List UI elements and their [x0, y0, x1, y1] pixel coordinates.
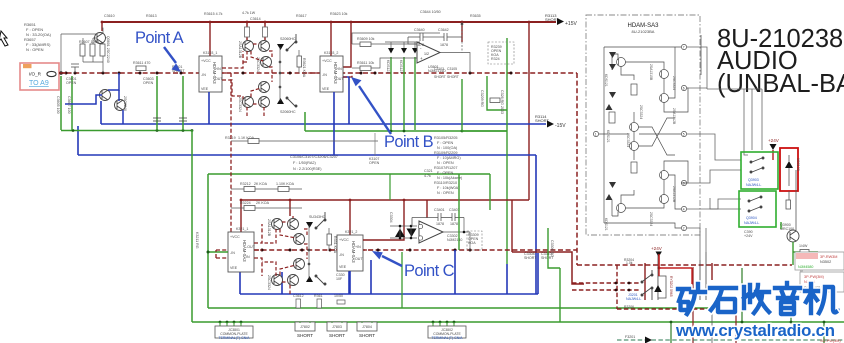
wire base network Q3601	[61, 28, 103, 73]
wire dashed signal bus vertical right	[576, 73, 578, 265]
wire green vertical x791	[790, 300, 792, 322]
jumper J7802	[295, 322, 315, 338]
svg-text:N : 2.2/100(R3E): N : 2.2/100(R3E)	[293, 167, 322, 171]
svg-text:K321_2: K321_2	[345, 230, 357, 234]
svg-text:2SC3324: 2SC3324	[672, 76, 676, 90]
svg-text:SHORT: SHORT	[359, 333, 375, 338]
wire blue verticals to y294	[240, 250, 538, 294]
wire dashed cluster interconnect	[243, 44, 272, 118]
annotation arrow A	[164, 47, 181, 72]
wire +VCC drop to Q3607	[264, 22, 266, 40]
svg-text:R3609 10k: R3609 10k	[357, 37, 375, 41]
connector 3P-RW3M 2	[800, 272, 844, 292]
svg-text:R3109/R2209: R3109/R2209	[434, 151, 457, 155]
wire green vertical x742	[741, 268, 743, 322]
svg-text:(UNBAL-BAL: (UNBAL-BAL	[717, 70, 844, 98]
svg-text:C321: C321	[424, 169, 433, 173]
svg-text:R3107/R1207: R3107/R1207	[434, 166, 457, 170]
svg-text:R3615 4.7k: R3615 4.7k	[204, 12, 223, 16]
svg-text:-IN: -IN	[322, 73, 327, 77]
wire diode tops	[385, 42, 420, 48]
resistor R3611 KOA	[136, 66, 146, 71]
transistor Q3613	[243, 97, 254, 108]
svg-text:-IN: -IN	[230, 251, 235, 255]
wire +VCC drop to U3602 right pin	[343, 22, 351, 67]
transistor Q3801	[272, 219, 283, 230]
svg-text:VEE: VEE	[339, 265, 347, 269]
svg-text:-IN: -IN	[201, 73, 206, 77]
svg-text:2SC3324: 2SC3324	[626, 133, 630, 147]
wire top rail	[604, 46, 681, 48]
svg-text:+24V: +24V	[768, 138, 780, 143]
wire green vertical x459	[458, 174, 460, 250]
svg-text:5: 5	[683, 132, 685, 136]
wire R3621	[298, 50, 300, 73]
wire green input U3801	[208, 251, 228, 253]
svg-text:C3614: C3614	[250, 17, 261, 21]
diode DC pair	[606, 182, 617, 200]
svg-text:+: +	[420, 56, 423, 61]
svg-text:SHORT: SHORT	[447, 75, 459, 79]
small parts above blue bus	[296, 299, 345, 308]
svg-text:+VCC: +VCC	[322, 59, 332, 63]
wire dashed cluster2 interconnect	[262, 216, 307, 294]
svg-text:+24V: +24V	[651, 246, 663, 251]
svg-text:F : OPEN: F : OPEN	[437, 171, 454, 175]
svg-text:VEE: VEE	[201, 87, 209, 91]
relay highlight box red	[780, 148, 798, 191]
svg-text:K3211 RG: K3211 RG	[195, 232, 199, 249]
wire red drop x404	[403, 200, 405, 222]
wire dashed taps U3601	[222, 51, 243, 104]
svg-text:KDS121: KDS121	[399, 60, 403, 73]
wire green vertical x183	[182, 76, 184, 131]
wire dashed taps U3602	[302, 73, 352, 77]
diode D3801	[306, 222, 313, 228]
svg-text:N3502: N3502	[820, 260, 831, 264]
resistor ladder right of U3602	[357, 37, 375, 71]
junction dot output	[463, 231, 466, 234]
wire gray center column	[279, 47, 281, 101]
wire green vertical x157	[156, 76, 158, 131]
svg-text:C3306 RG: C3306 RG	[550, 240, 554, 257]
wire green stub x390	[389, 174, 391, 200]
svg-text:-IN: -IN	[339, 253, 344, 257]
diode D3605	[277, 44, 284, 50]
wire green long vertical x192	[191, 130, 193, 322]
IC U3601 HDAM-SA3	[199, 51, 223, 92]
wire gray vertical x375	[374, 133, 376, 156]
wire stub pink box to bus	[59, 72, 66, 74]
svg-text:RY3202 5965: RY3202 5965	[669, 276, 673, 297]
capacitor C3611 plates	[153, 118, 161, 121]
svg-text:Point A: Point A	[135, 29, 184, 47]
wire green right x548	[548, 228, 560, 322]
svg-text:J7803: J7803	[332, 325, 342, 329]
svg-text:1878: 1878	[450, 222, 458, 226]
IC U3802 HDAM-SA3	[337, 230, 363, 271]
transistor QD	[630, 123, 639, 132]
svg-text:10F: 10F	[336, 277, 343, 281]
diode D3612	[401, 48, 407, 54]
pin 3 circle	[681, 180, 686, 185]
resistor R3821	[327, 234, 332, 245]
wire black vertical group under box	[658, 252, 706, 300]
wire green Q3900 emitter network	[781, 222, 818, 265]
svg-text:OPEN: OPEN	[369, 161, 380, 165]
wire gray rail y189	[231, 188, 302, 190]
svg-text:F : 1/50(RA2): F : 1/50(RA2)	[293, 161, 317, 165]
resistor R3607	[100, 44, 105, 56]
svg-text:+15V: +15V	[565, 21, 577, 27]
wire interior links	[612, 54, 618, 60]
wire bottom rail	[604, 223, 681, 228]
transistor Q3604	[115, 100, 126, 111]
svg-text:Q3904: Q3904	[746, 216, 757, 220]
wire blue riser x101	[100, 101, 102, 124]
svg-text:KDS121: KDS121	[604, 218, 608, 231]
svg-text:2K KOA: 2K KOA	[254, 182, 268, 186]
svg-text:3P-RW3M: 3P-RW3M	[820, 255, 837, 259]
jumper J7803	[327, 322, 347, 338]
switch S3601 contact	[286, 34, 297, 51]
pin number labels	[595, 45, 685, 230]
resistor gray rail y208	[231, 207, 302, 209]
label -15V	[535, 114, 566, 129]
wire +VCC drop to Q3605	[246, 22, 248, 40]
switch S3201 contacts	[641, 270, 653, 300]
net dark green dashed bottom bus	[617, 339, 844, 341]
svg-text:1SS133: 1SS133	[796, 158, 800, 171]
net green bus segment B	[305, 130, 507, 132]
svg-text:10/50: 10/50	[334, 294, 343, 298]
svg-text:NAJW4-L: NAJW4-L	[626, 297, 641, 301]
svg-text:F : 10k(W0A): F : 10k(W0A)	[437, 186, 460, 190]
svg-text:KDS121: KDS121	[386, 60, 390, 73]
svg-text:1.10K KOA: 1.10K KOA	[276, 182, 295, 186]
svg-text:R3613: R3613	[146, 14, 157, 18]
resistor R3213 body	[278, 187, 289, 192]
resistor R3219 body	[248, 139, 259, 144]
svg-text:N : OPEN: N : OPEN	[26, 47, 44, 52]
wire red U3802 right supply	[363, 222, 404, 240]
IC U3801 HDAM-SA3	[228, 227, 256, 272]
svg-text:VEE: VEE	[230, 266, 238, 270]
wire op-amp output	[440, 23, 470, 73]
transistor Q3803	[288, 219, 299, 230]
wire green vertical left x72	[71, 76, 73, 130]
transistor QH	[660, 195, 669, 204]
wire dashed stub into U3801	[216, 249, 228, 251]
wire green verticals diodes D3601-3	[390, 57, 392, 130]
diode D3611	[388, 48, 394, 54]
svg-text:OUT: OUT	[355, 257, 363, 261]
svg-text:R3623 10k: R3623 10k	[330, 12, 348, 16]
wire R3821	[328, 228, 330, 250]
transistor Q3615	[259, 97, 270, 108]
svg-text:2SA1312B: 2SA1312B	[672, 108, 676, 125]
watermark 矿 white halo	[678, 283, 836, 314]
svg-text:R3206: R3206	[624, 305, 634, 309]
resistor R3631 box	[488, 42, 514, 64]
svg-text:+VCC: +VCC	[339, 238, 349, 242]
svg-text:R3617: R3617	[296, 14, 307, 18]
annotation arrow C	[372, 251, 402, 266]
arrow up-triangle +24V feed	[654, 285, 662, 292]
svg-text:K321_1: K321_1	[236, 227, 248, 231]
svg-text:1878: 1878	[436, 222, 444, 226]
transistor Q3805	[294, 234, 305, 245]
net green bus y174	[208, 173, 490, 175]
relay K3901 NAJW4-L green box	[741, 152, 778, 189]
wire red drop x427 opamp supply	[426, 200, 428, 218]
svg-text:KDS121: KDS121	[604, 74, 608, 87]
diode D3607	[277, 98, 284, 104]
svg-text:C3644 10/50: C3644 10/50	[420, 10, 441, 14]
wire gray bottom right vertical	[711, 308, 713, 343]
svg-text:6: 6	[683, 86, 685, 90]
wire dark red vertical x693	[692, 267, 694, 343]
transistor Q3609	[261, 57, 272, 68]
wire red box internals	[788, 155, 790, 186]
junction dots diode pair	[399, 225, 413, 240]
svg-text:1: 1	[595, 132, 597, 136]
svg-text:C3407: C3407	[449, 208, 460, 212]
svg-text:2SA1312B: 2SA1312B	[267, 219, 271, 237]
svg-text:J7804: J7804	[362, 325, 372, 329]
svg-text:2SC3324: 2SC3324	[639, 105, 643, 119]
junction dots green bus y320 left group	[219, 321, 243, 324]
wire green vertical x507	[506, 38, 508, 264]
wire dashed red vertical x231	[230, 73, 232, 250]
connector 3P-RW3M N3502	[795, 252, 844, 270]
note text R3105 block	[434, 136, 463, 195]
label +24V right	[768, 138, 780, 150]
svg-text:4: 4	[683, 207, 685, 211]
svg-text:+IN: +IN	[355, 245, 361, 249]
op-amp U3802b	[418, 221, 443, 243]
wire +24V red drop	[772, 150, 774, 160]
svg-text:F3201: F3201	[625, 335, 635, 339]
svg-text:NAJW4-L: NAJW4-L	[746, 183, 761, 187]
svg-text:SU343HC: SU343HC	[309, 215, 326, 219]
note text block R3651	[24, 22, 52, 52]
wire green elbow x462	[462, 79, 507, 131]
connector JC3802 COMMON-PLATE	[428, 326, 466, 340]
transistor QF	[660, 171, 669, 180]
capacitor C3401 C3407	[412, 213, 464, 226]
svg-text:3: 3	[683, 181, 685, 185]
resistor R3214 body	[244, 206, 255, 211]
svg-text:NJM2114D: NJM2114D	[428, 69, 446, 73]
svg-text:OPEN: OPEN	[66, 81, 77, 85]
svg-text:C3605 100: C3605 100	[56, 96, 60, 114]
wire opamp2 output	[443, 218, 470, 251]
HDAM interior circuit	[593, 44, 688, 230]
diode DB pair	[606, 92, 617, 110]
op-amp U3603	[417, 42, 440, 63]
svg-text:+VCC: +VCC	[201, 59, 211, 63]
wire blue OUT U3602 to bus	[343, 77, 349, 124]
wire green vertical x208 box edge	[207, 174, 209, 308]
svg-text:-15V: -15V	[555, 123, 566, 129]
wire dashed taps U3802	[330, 249, 375, 251]
wire stubs to COMMON-PLATE 1	[220, 322, 241, 327]
svg-text:SHORT: SHORT	[329, 333, 345, 338]
junction dots green bus y320 right group	[432, 321, 456, 324]
connector box I/O_R	[20, 63, 63, 90]
diode D3613	[412, 48, 418, 54]
capacitor C3640 C3642 feedback	[408, 33, 462, 44]
resistor interior R1	[631, 84, 637, 95]
svg-text:R3635: R3635	[470, 14, 481, 18]
label C3103 C3105 SHORT	[434, 67, 459, 79]
svg-text:+24V: +24V	[744, 234, 753, 238]
svg-text:VEE: VEE	[322, 87, 330, 91]
wire dashed signal bus bottom to output	[577, 264, 792, 266]
svg-text:KOA: KOA	[468, 241, 476, 245]
wire dashed left taps U3801	[216, 250, 228, 258]
svg-text:OPEN: OPEN	[143, 81, 154, 85]
junction dots on +15V bus	[101, 21, 531, 24]
wire red drop to HDAM U3801	[240, 200, 242, 232]
label interior transistors	[606, 64, 676, 226]
wire green vertical left x61	[60, 76, 62, 130]
wire +VCC drop to HDAM U3601	[209, 22, 211, 56]
resistor R3603	[80, 44, 85, 56]
wire green riser x305	[304, 112, 306, 131]
cursor mark left edge	[0, 31, 8, 46]
connector JC3801 COMMON-PLATE	[215, 326, 253, 340]
svg-text:J7802: J7802	[300, 325, 310, 329]
transistor Q3809	[272, 275, 283, 286]
IC U3602 HDAM-SA3	[320, 51, 344, 92]
svg-text:F : 10(AMRG): F : 10(AMRG)	[437, 156, 461, 160]
svg-text:MRC100: MRC100	[780, 227, 794, 231]
net green bottom bus y320	[192, 321, 844, 323]
svg-text:C326 RG 2003: C326 RG 2003	[500, 90, 504, 114]
wire gray opamp input feeds	[352, 33, 440, 68]
svg-text:KDS121: KDS121	[606, 130, 610, 143]
svg-text:R3212: R3212	[240, 182, 251, 186]
wire input pin1	[599, 133, 629, 135]
svg-text:F : OPEN: F : OPEN	[437, 141, 454, 145]
svg-text:2SA1312B: 2SA1312B	[672, 186, 676, 203]
svg-text:R3105/R3205: R3105/R3205	[434, 136, 457, 140]
svg-text:SHORT: SHORT	[524, 256, 537, 260]
note text C3106 block	[290, 155, 338, 171]
svg-text:NAJW4-L: NAJW4-L	[744, 221, 759, 225]
diode pair D3816 black down	[407, 229, 417, 238]
svg-text:R3611 470: R3611 470	[133, 61, 150, 65]
svg-text:2SC3324: 2SC3324	[267, 275, 271, 290]
wire blue left elbow	[77, 126, 79, 155]
junction dots green buses	[72, 129, 464, 132]
net green bottom bus y308	[208, 307, 712, 309]
transistor Q3605	[243, 41, 254, 52]
svg-text:R3219: R3219	[225, 136, 236, 140]
wire stubs to COMMON-PLATE 2	[433, 322, 454, 327]
wire red drop x290	[289, 200, 291, 216]
wire black right of box	[700, 35, 702, 75]
label +24V mid	[651, 246, 663, 257]
svg-text:C3640: C3640	[414, 28, 425, 32]
svg-text:C3105: C3105	[447, 67, 457, 71]
net analog-gnd blue bus 2	[78, 154, 536, 156]
wire red mid vertical	[658, 256, 660, 268]
resistor R3605	[90, 44, 95, 56]
svg-text:2: 2	[683, 226, 685, 230]
svg-text:8U-21023BA: 8U-21023BA	[632, 29, 655, 34]
svg-text:C3304: C3304	[389, 212, 393, 223]
net second-channel red bus y200	[241, 199, 529, 201]
svg-text:TO A9: TO A9	[29, 80, 49, 87]
wire red drop to HDAM U3802	[349, 200, 351, 235]
diode DA pair	[609, 52, 616, 70]
label texture top bus	[104, 10, 481, 21]
wire resistor net to bus	[83, 38, 103, 73]
svg-text:4.7k: 4.7k	[424, 174, 431, 178]
title text 8U-210238	[717, 25, 844, 98]
transistor Q3900 MRC100	[787, 230, 799, 242]
svg-text:+VCC: +VCC	[230, 235, 240, 239]
wire blue VEE U3802	[349, 271, 351, 294]
svg-text:+IN: +IN	[336, 67, 342, 71]
wire dark red bottom right net	[645, 263, 712, 300]
wire red solid elbow to relay block	[512, 252, 584, 284]
wire gray center column2	[308, 225, 310, 279]
transistor QB	[660, 70, 669, 79]
svg-text:Point B: Point B	[384, 133, 434, 151]
pin 2 circle	[681, 225, 686, 230]
transistor QE	[630, 142, 639, 151]
wire left rail	[603, 47, 605, 223]
pin 1 circle	[593, 131, 598, 136]
resistor R3905	[800, 250, 809, 255]
svg-text:Q3903: Q3903	[748, 178, 759, 182]
label +15V	[545, 13, 577, 27]
svg-text:N : OPEN: N : OPEN	[437, 161, 454, 165]
svg-text:1/2: 1/2	[424, 52, 429, 56]
pin 5 circle	[681, 131, 686, 136]
svg-text:TERMINAL(T)-GN/A: TERMINAL(T)-GN/A	[432, 336, 464, 340]
svg-text:R3224: R3224	[240, 201, 251, 205]
resistor interior R2	[631, 162, 637, 173]
wire blue VEE U3602	[333, 92, 335, 155]
svg-text:1/4W: 1/4W	[799, 244, 808, 248]
transistor Q3601	[95, 33, 106, 44]
pin 7 circle	[681, 44, 686, 49]
transistor Q3611	[259, 82, 270, 93]
svg-text:C3106/C3107/C3206/C3207: C3106/C3107/C3206/C3207	[290, 155, 338, 159]
resistor R3621	[297, 56, 302, 67]
wire relay right contacts gray	[786, 170, 796, 230]
svg-text:2SA1312B: 2SA1312B	[238, 41, 242, 59]
resistor R3633	[490, 98, 500, 103]
transistor Q3607	[259, 41, 270, 52]
relay coil RY3202	[658, 276, 666, 298]
svg-text:7: 7	[683, 45, 685, 49]
svg-text:SHORT: SHORT	[434, 75, 446, 79]
wire dark red vertical x736	[735, 297, 737, 343]
resistor R3212 body	[244, 187, 255, 192]
relay K3201 block dashed outline	[572, 265, 717, 309]
wire green branch x487	[487, 76, 507, 110]
svg-text:R3110/R3210: R3110/R3210	[434, 181, 457, 185]
wire blue VEE U3601	[208, 92, 210, 124]
wire bright red relay coil	[659, 254, 692, 284]
switch S3802	[315, 275, 326, 285]
